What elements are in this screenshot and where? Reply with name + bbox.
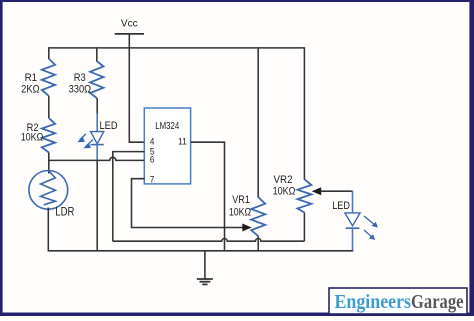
potentiometer VR1 <box>251 197 265 236</box>
VR1 wiper arrow <box>242 224 251 232</box>
wire R1 to R2 <box>48 96 50 118</box>
ground symbol <box>197 251 213 285</box>
svg-text:Vcc: Vcc <box>121 19 138 30</box>
svg-text:Garage: Garage <box>411 291 464 313</box>
EngineersGarage logo <box>329 288 467 314</box>
wire pin5 net rail with hops <box>113 238 305 241</box>
wire LED2 anode lead <box>352 191 354 214</box>
svg-text:330Ω: 330Ω <box>69 83 92 95</box>
wire VR2 bottom lead <box>303 213 305 242</box>
svg-text:VR1: VR1 <box>232 194 250 206</box>
wire top Vcc rail <box>48 47 304 49</box>
wire pin 11 to ground rail <box>191 142 225 251</box>
svg-text:LED: LED <box>332 200 350 212</box>
wire R2 to LDR / node junction <box>48 153 50 174</box>
op-amp U1 LM324 body <box>144 108 190 184</box>
wire LED1 cathode lead <box>96 145 98 161</box>
wire ground rail <box>48 250 353 252</box>
wire rail to R3 <box>96 47 98 61</box>
wire LED1 anode lead <box>96 114 98 133</box>
svg-text:6: 6 <box>150 155 155 166</box>
Vcc power symbol <box>115 34 144 48</box>
svg-text:VR2: VR2 <box>274 174 293 186</box>
svg-text:LED: LED <box>100 120 118 132</box>
wire VR1 bottom to ground rail <box>257 236 259 252</box>
wire VR2 wiper to LED2 <box>321 190 353 192</box>
svg-text:2KΩ: 2KΩ <box>21 83 40 95</box>
VR2 wiper arrow <box>312 187 322 195</box>
resistor R3 <box>90 61 103 98</box>
photoresistor LDR <box>29 171 68 210</box>
svg-text:10KΩ: 10KΩ <box>229 207 251 219</box>
svg-text:7: 7 <box>150 175 155 186</box>
wire LED2 cathode to ground rail <box>352 228 354 251</box>
svg-text:LDR: LDR <box>55 204 74 218</box>
resistor R1 <box>42 59 55 96</box>
wire R3 to LED1 <box>96 98 98 114</box>
wire rail to VR2 <box>303 47 305 179</box>
LED D2 (right) <box>345 213 378 240</box>
wire LED1 to ground rail <box>96 161 98 252</box>
svg-text:10KΩ: 10KΩ <box>21 132 44 144</box>
wire rail to R1 <box>48 47 50 59</box>
wire LDR to ground rail <box>47 208 49 252</box>
wire rail to VR1 <box>257 47 259 197</box>
wire node junction to pin 6 with hop <box>49 157 145 160</box>
wire pin 7 to VR1 wiper <box>132 179 244 228</box>
svg-text:10KΩ: 10KΩ <box>273 186 296 198</box>
potentiometer VR2 <box>297 179 311 212</box>
wire Vcc drop to pin 4 <box>129 48 144 142</box>
wire pin 5 to divider <box>113 152 145 242</box>
svg-text:Engineers: Engineers <box>335 291 412 313</box>
resistor R2 <box>42 118 55 152</box>
LED D1 (left) <box>77 132 104 149</box>
svg-text:11: 11 <box>178 136 187 147</box>
svg-text:LM324: LM324 <box>155 121 179 132</box>
